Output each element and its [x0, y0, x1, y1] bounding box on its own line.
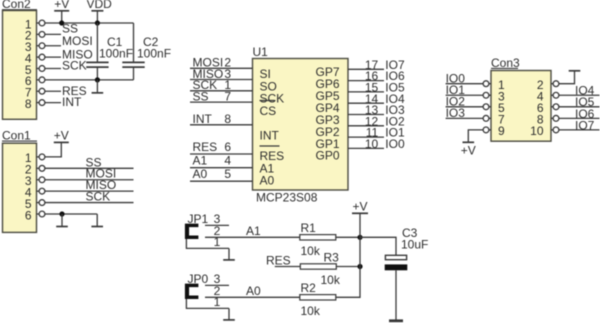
Con3 left pin circles [483, 81, 491, 133]
svg-text:Con1: Con1 [2, 129, 31, 143]
U1 inside label RES [260, 145, 280, 147]
wire Con3 pin 4 net IO4 [559, 94, 600, 96]
wire Con3 pin 8 net IO6 [559, 117, 600, 119]
power VDD symbol [91, 10, 103, 12]
wire C3 to ground [395, 270, 397, 320]
wire U1 pin 13 net IO3 [348, 114, 384, 116]
svg-text:VDD: VDD [87, 0, 113, 11]
jumper JP0 pin 1 stub to ground [205, 307, 229, 309]
Con2 pin circles 1-8 [37, 20, 45, 105]
svg-text:A0: A0 [260, 174, 275, 188]
svg-text:A1: A1 [193, 154, 208, 168]
wire Con1 pin4 / net MISO [45, 190, 134, 192]
capacitor C1 100nF [96, 23, 98, 62]
wire Con3 pin 7 net IO3 [446, 117, 484, 119]
Con3 even pin numbers 2,4,6,8,10 [530, 78, 544, 138]
wire net RES stub to R3 [275, 266, 301, 268]
Con1 pin circles 1-6 [37, 154, 45, 217]
svg-text:INT: INT [193, 112, 213, 126]
connector Con1 body [3, 143, 37, 232]
wire R2 right up to +V rail [336, 267, 360, 298]
wire Con2 pin6 ground rail [45, 79, 134, 81]
power +V symbol top-left [54, 10, 69, 12]
svg-text:MOSI: MOSI [62, 34, 93, 48]
svg-text:SS: SS [193, 90, 209, 104]
wire Con1 pin3 / net MOSI [45, 179, 134, 181]
ground bar above right of Con3 [569, 70, 581, 72]
wire Con3 pin 6 net IO5 [559, 106, 600, 108]
power +V symbol below Con3 (bar) [463, 141, 475, 143]
svg-text:INT: INT [62, 95, 82, 109]
wire +V rail to C3 [360, 237, 396, 255]
wire U1 pin 14 net IO4 [348, 102, 384, 104]
wire Con2 pin2 stub / net SS [45, 33, 61, 35]
svg-text:U1: U1 [253, 45, 269, 59]
svg-text:8: 8 [25, 97, 32, 111]
junction R1/+V rail [357, 235, 362, 240]
svg-text:8: 8 [224, 112, 231, 126]
wire Con3 pin 5 net IO2 [446, 106, 484, 108]
svg-text:9: 9 [498, 124, 505, 138]
svg-text:10: 10 [365, 137, 379, 151]
jumper JP0 pin 3 stub [205, 284, 229, 286]
wire U1 pin 10 net IO0 [348, 147, 384, 149]
Con2 pin numbers 1-8 [25, 17, 32, 111]
svg-text:R1: R1 [301, 221, 317, 235]
resistor R1 10k [300, 235, 336, 240]
svg-text:100nF: 100nF [137, 46, 171, 60]
wire U1 pin 1 net SCK [190, 90, 253, 92]
U1 inside label CS [260, 100, 275, 102]
wire U1 pin 4 net A1 [190, 167, 253, 169]
ground left below Con1 pin6 [61, 214, 63, 227]
svg-text:A1: A1 [246, 224, 261, 238]
svg-text:6: 6 [25, 208, 32, 222]
resistor R2 10k [300, 295, 336, 300]
jumper JP1 pin 1 stub to ground [205, 247, 229, 249]
wire Con2 pin7 stub / net RES [45, 90, 61, 92]
power +V symbol above rail [352, 212, 368, 214]
wire Con2 pin3 stub / net MOSI [45, 45, 61, 47]
wire Con2 pin8 stub / net INT [45, 102, 61, 104]
wire Con1 pin5 / net SCK [45, 202, 134, 204]
svg-text:10k: 10k [321, 273, 341, 287]
wire U1 pin 5 net A0 [190, 180, 253, 182]
wire +V rail R1 to R3 [359, 237, 361, 266]
Con1 pin numbers 1-6 [25, 151, 32, 222]
jumper JP1 pin 3 stub [205, 224, 229, 226]
wire U1 pin 16 net IO6 [348, 80, 384, 82]
junction R3/+V rail [357, 264, 362, 269]
svg-text:IO0: IO0 [385, 137, 405, 151]
wire U1 pin 7 net SS [190, 101, 253, 103]
junction at +V [59, 20, 64, 25]
wire U1 pin 11 net IO1 [348, 136, 384, 138]
svg-text:+V: +V [54, 129, 69, 143]
svg-text:+V: +V [461, 144, 476, 158]
svg-text:6: 6 [224, 140, 231, 154]
svg-text:RES: RES [193, 140, 218, 154]
wire JP1 pin2 / net A1 to R1 [205, 236, 300, 238]
connector Con2 body [3, 11, 37, 120]
ground below C3 [389, 319, 403, 322]
connector Con3 body [491, 71, 551, 142]
svg-text:IO3: IO3 [446, 106, 466, 120]
svg-text:R2: R2 [301, 281, 317, 295]
jumper JP1 body bracket [185, 224, 199, 239]
svg-text:R3: R3 [324, 250, 340, 264]
wire U1 pin 2 net MOSI [190, 67, 253, 69]
svg-text:5: 5 [224, 167, 231, 181]
wire U1 pin 15 net IO5 [348, 91, 384, 93]
svg-text:Con3: Con3 [491, 56, 520, 70]
svg-text:10: 10 [530, 124, 544, 138]
svg-text:100nF: 100nF [99, 46, 133, 60]
ground right of Con1 pin6 [96, 214, 98, 227]
svg-text:A0: A0 [193, 167, 208, 181]
wire U1 pin 17 net IO7 [348, 68, 384, 70]
wire U1 pin 3 net MISO [190, 79, 253, 81]
svg-text:4: 4 [224, 154, 231, 168]
wire Con3 pin 1 net IO0 [446, 83, 484, 85]
wire Con3 pin 3 net IO1 [446, 94, 484, 96]
capacitor C3 10uF electrolytic [385, 255, 406, 259]
IC U1 MCP23S08 body [253, 59, 349, 191]
svg-text:7: 7 [224, 90, 231, 104]
svg-text:INT: INT [260, 128, 280, 142]
junction C1 / ground [95, 77, 100, 82]
svg-text:A0: A0 [246, 284, 261, 298]
svg-text:10uF: 10uF [401, 238, 428, 252]
wire Con1 pin6 to ground [45, 213, 97, 215]
junction at VDD [95, 20, 100, 25]
wire R3 right to +V rail [336, 266, 360, 268]
svg-text:+V: +V [352, 200, 367, 214]
wire Con2 pin1 to VDD rail [45, 22, 134, 24]
svg-text:10k: 10k [301, 304, 321, 318]
wire U1 pin 12 net IO2 [348, 125, 384, 127]
power +V symbol above Con1 [54, 141, 69, 143]
resistor R3 10k [300, 264, 336, 269]
wire Con2 pin4 stub / net MISO [45, 56, 61, 58]
jumper JP1 pin1 hook [186, 239, 205, 248]
svg-text:SCK: SCK [86, 190, 111, 204]
capacitor C2 100nF [133, 23, 135, 62]
jumper JP0 body bracket [185, 284, 199, 299]
wire Con1 pin1 to +V [45, 142, 61, 157]
wire Con2 pin5 stub / net SCK [45, 67, 61, 69]
junction on Con1 pin6 wire [59, 211, 64, 216]
svg-text:SCK: SCK [62, 59, 87, 73]
wire JP0 pin2 / net A0 to R2 [205, 296, 300, 298]
wire Con3 pin2 to ground bar [559, 71, 575, 84]
wire U1 pin 6 net RES [190, 153, 253, 155]
wire Con1 pin2 / net SS [45, 167, 134, 169]
Con3 odd pin numbers 1,3,5,7,9 [498, 78, 505, 138]
Con3 right pin circles [551, 81, 559, 133]
svg-text:+V: +V [54, 0, 69, 11]
wire R1 right to +V rail [336, 236, 360, 238]
wire U1 pin 8 net INT [190, 124, 253, 126]
svg-text:10k: 10k [301, 244, 321, 258]
ground below C1 [96, 80, 98, 93]
svg-text:IO7: IO7 [575, 118, 595, 132]
svg-text:CS: CS [260, 104, 277, 118]
wire Con3 pin9 to +V [468, 130, 483, 142]
svg-text:RES: RES [266, 253, 291, 267]
jumper JP0 pin1 hook [186, 299, 205, 308]
wire Con3 pin 10 net IO7 [559, 129, 600, 131]
svg-text:MCP23S08: MCP23S08 [256, 191, 318, 205]
svg-text:GP0: GP0 [315, 149, 339, 163]
